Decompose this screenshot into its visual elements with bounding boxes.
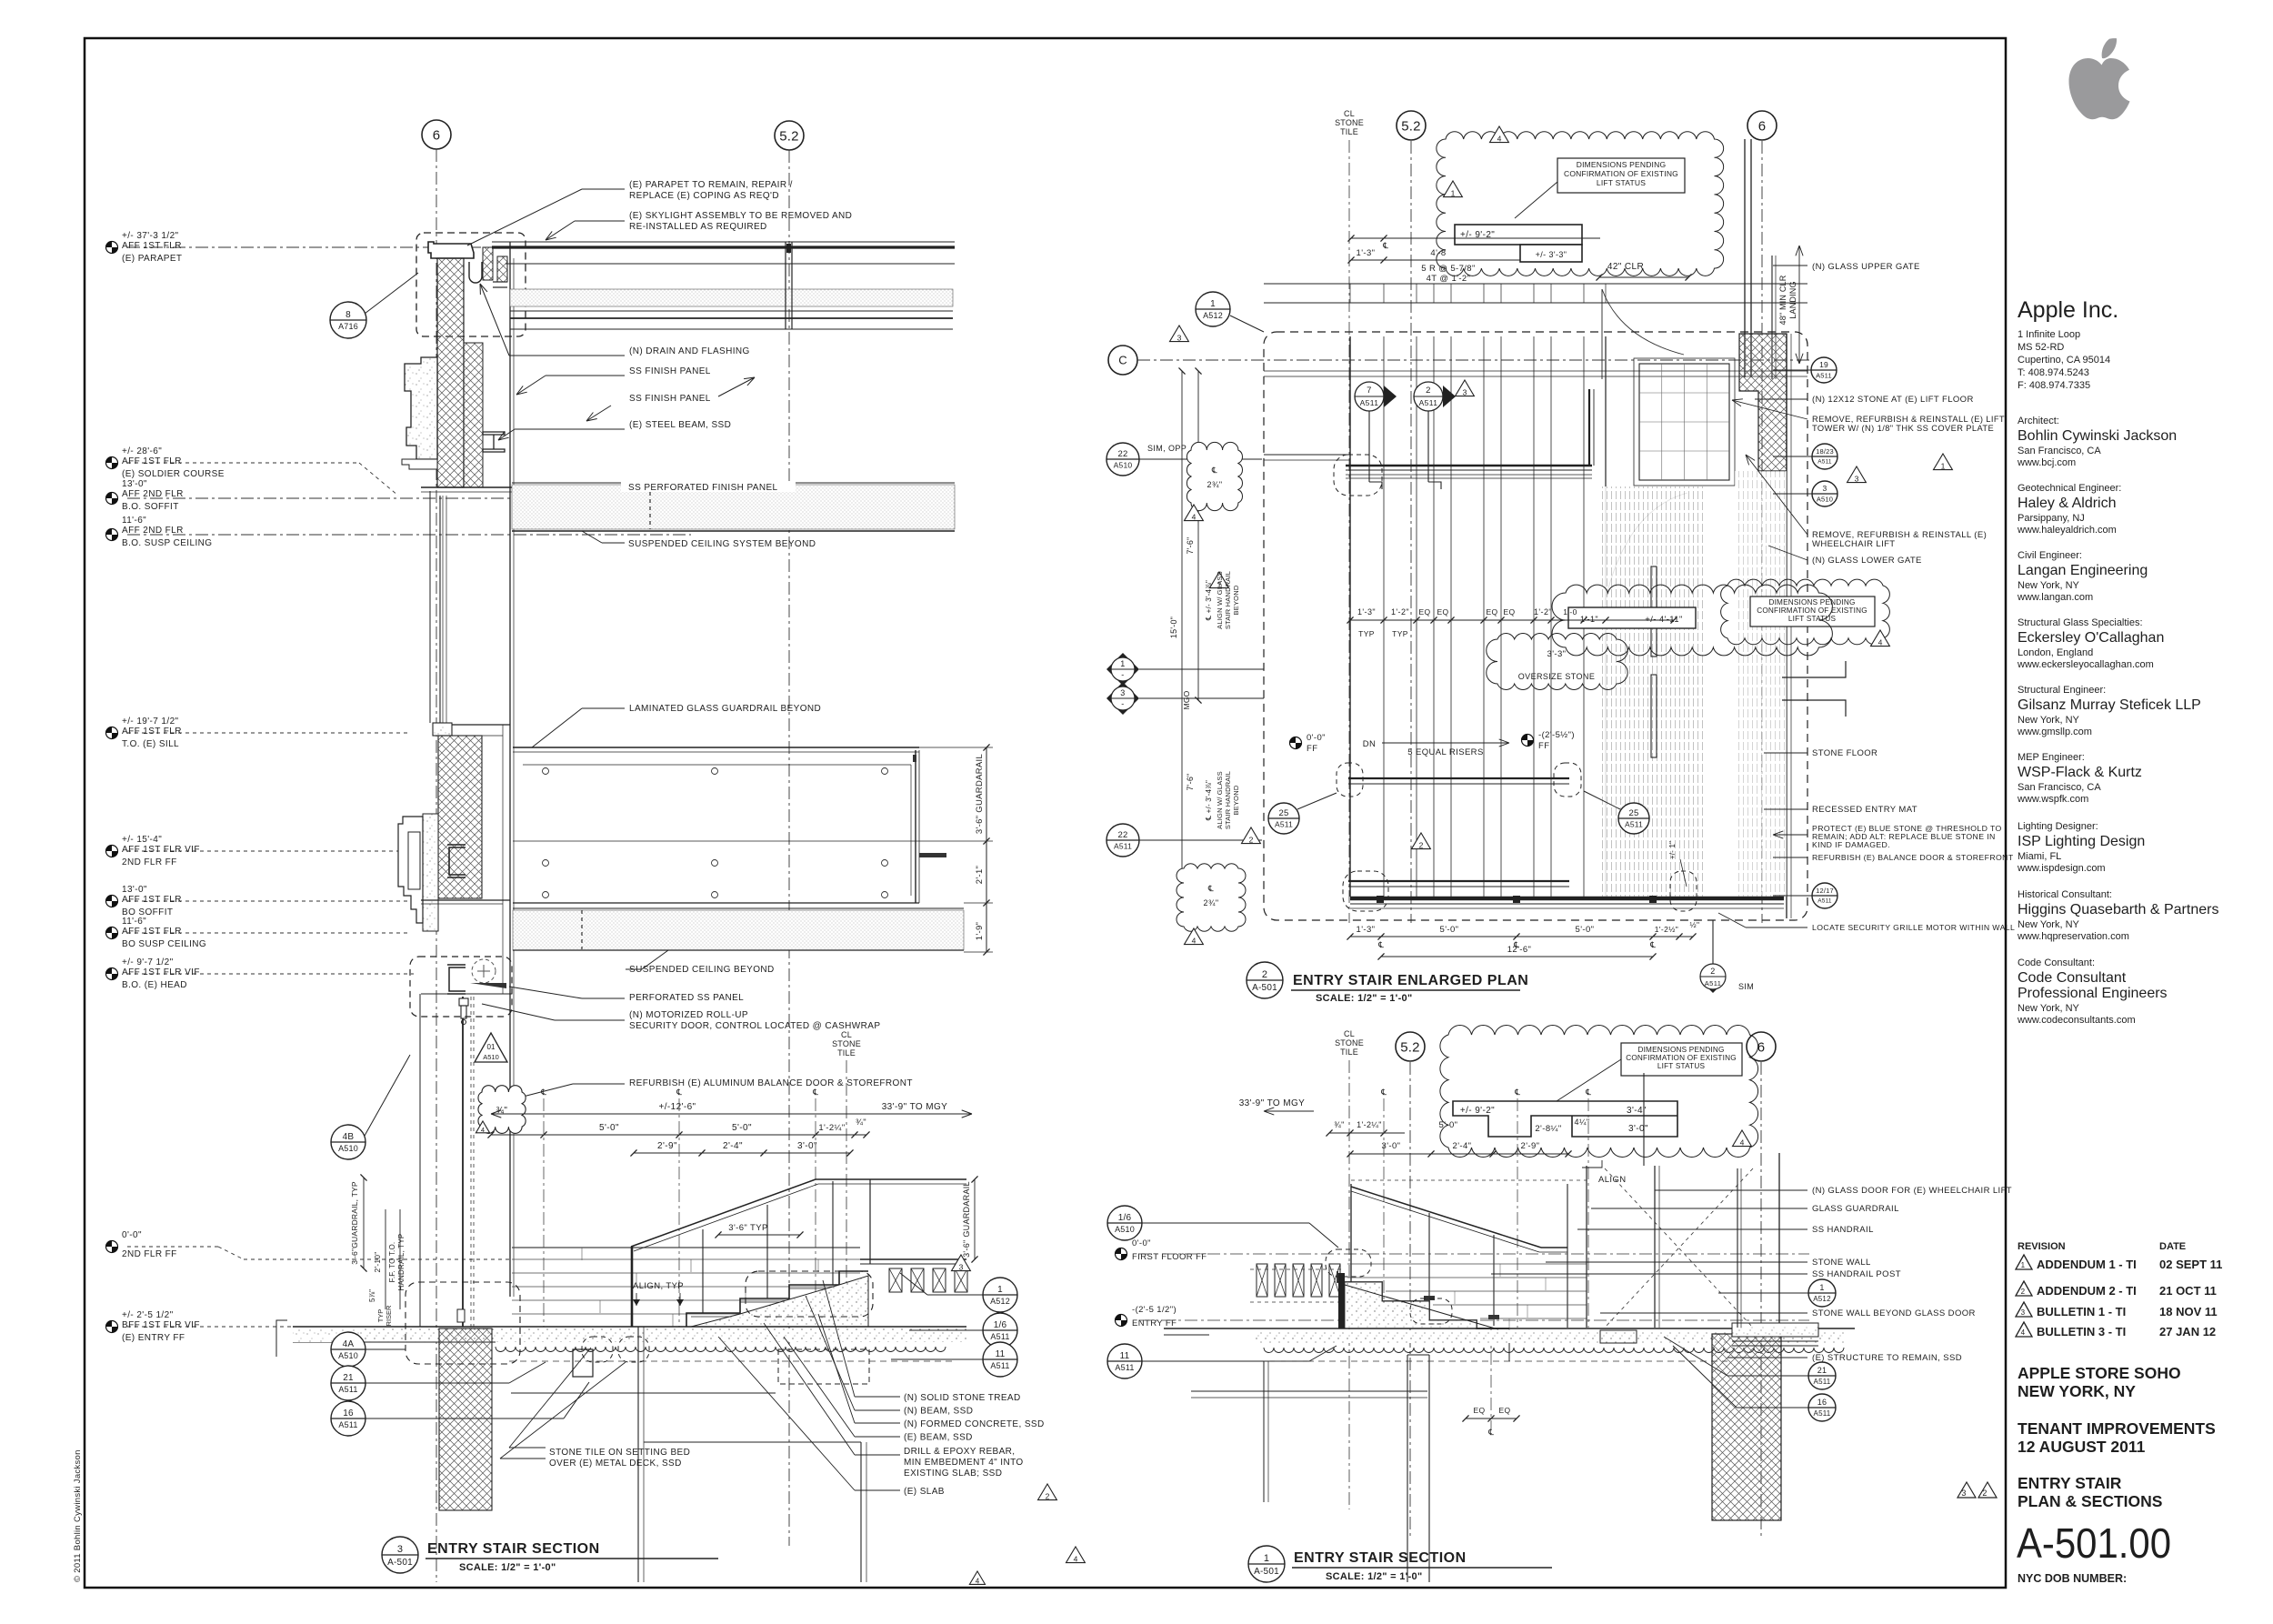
svg-text:A511: A511 bbox=[338, 1420, 357, 1429]
svg-text:Lighting Designer:: Lighting Designer: bbox=[2018, 821, 2098, 832]
svg-text:T: 408.974.5243: T: 408.974.5243 bbox=[2018, 367, 2089, 378]
svg-text:AFF 1ST FLR: AFF 1ST FLR bbox=[122, 241, 182, 251]
svg-text:STAIR HANDRAIL: STAIR HANDRAIL bbox=[1224, 571, 1232, 629]
svg-text:11'-6": 11'-6" bbox=[122, 917, 146, 927]
entry FF marker bbox=[1116, 1315, 1127, 1327]
title 3 entry stair section bbox=[382, 1537, 418, 1573]
roof insulation band bbox=[510, 289, 953, 306]
svg-text:New York, NY: New York, NY bbox=[2018, 1003, 2080, 1014]
roof deck lines bbox=[510, 310, 953, 312]
svg-text:Higgins Quasebarth & Partners: Higgins Quasebarth & Partners bbox=[2018, 902, 2218, 917]
svg-text:www.codeconsultants.com: www.codeconsultants.com bbox=[2017, 1015, 2136, 1026]
svg-text:25: 25 bbox=[1279, 808, 1289, 818]
svg-text:MEP Engineer:: MEP Engineer: bbox=[2018, 752, 2085, 763]
svg-text:APPLE STORE SOHO: APPLE STORE SOHO bbox=[2018, 1364, 2181, 1382]
svg-text:2: 2 bbox=[1046, 1492, 1050, 1501]
svg-text:SCALE: 1/2" = 1'-0": SCALE: 1/2" = 1'-0" bbox=[1326, 1571, 1422, 1582]
dashed plan boundary bbox=[1264, 332, 1807, 920]
svg-text:SS HANDRAIL: SS HANDRAIL bbox=[1812, 1225, 1874, 1235]
top dims (plan) bbox=[1351, 237, 1600, 239]
svg-text:(N) GLASS UPPER GATE: (N) GLASS UPPER GATE bbox=[1812, 262, 1920, 272]
svg-text:4B: 4B bbox=[343, 1132, 355, 1142]
svg-text:0'-0": 0'-0" bbox=[1132, 1238, 1151, 1248]
elevation marker B.O. SUSP CEILING 11-6 bbox=[106, 529, 118, 541]
svg-text:Geotechnical Engineer:: Geotechnical Engineer: bbox=[2018, 483, 2121, 494]
svg-text:A511: A511 bbox=[1814, 1409, 1831, 1418]
svg-text:SS HANDRAIL POST: SS HANDRAIL POST bbox=[1812, 1269, 1901, 1279]
svg-text:3'-6"GUARDRAIL, TYP: 3'-6"GUARDRAIL, TYP bbox=[350, 1181, 359, 1265]
left rotated dims (plan) bbox=[1181, 371, 1183, 897]
svg-text:2: 2 bbox=[1982, 1489, 1987, 1498]
svg-text:DIMENSIONS PENDING: DIMENSIONS PENDING bbox=[1637, 1046, 1724, 1054]
svg-text:EQ: EQ bbox=[1503, 607, 1515, 617]
svg-text:¾": ¾" bbox=[856, 1118, 866, 1128]
svg-text:22: 22 bbox=[1118, 449, 1128, 459]
svg-text:1/6: 1/6 bbox=[1118, 1213, 1132, 1223]
svg-text:BEYOND: BEYOND bbox=[1232, 585, 1240, 615]
upper plan wall lines bbox=[1264, 283, 1807, 285]
svg-text:(N) BEAM, SSD: (N) BEAM, SSD bbox=[904, 1407, 973, 1417]
svg-text:3: 3 bbox=[2021, 1308, 2026, 1317]
revision cloud top (plan) bbox=[1437, 132, 1724, 276]
rotated left dims at stair bbox=[363, 1178, 365, 1268]
svg-text:+/-12'-6": +/-12'-6" bbox=[658, 1102, 696, 1112]
svg-text:33'-9" TO MGY: 33'-9" TO MGY bbox=[1239, 1098, 1306, 1108]
wall end post (section 1) bbox=[1338, 1273, 1345, 1328]
svg-text:ENTRY STAIR: ENTRY STAIR bbox=[2018, 1474, 2122, 1492]
elevation marker BO SOFFIT 13-0 bbox=[106, 896, 118, 907]
svg-text:SS PERFORATED FINISH PANEL: SS PERFORATED FINISH PANEL bbox=[628, 483, 778, 493]
glass wall at landing edge (plan) bbox=[1346, 465, 1592, 467]
svg-text:www.langan.com: www.langan.com bbox=[2017, 592, 2093, 603]
svg-text:ADDENDUM 2 - TI: ADDENDUM 2 - TI bbox=[2037, 1284, 2137, 1298]
svg-text:A-501: A-501 bbox=[1254, 1567, 1279, 1577]
svg-text:0'-0": 0'-0" bbox=[122, 1230, 142, 1240]
basement column (section 1) bbox=[1407, 1355, 1408, 1582]
svg-text:1'-0: 1'-0 bbox=[1563, 607, 1577, 617]
upper floor landing right bbox=[869, 1179, 871, 1264]
svg-text:+/- 3'-3": +/- 3'-3" bbox=[1536, 250, 1567, 259]
svg-text:B.O. (E) HEAD: B.O. (E) HEAD bbox=[122, 980, 187, 990]
suspended ceiling beyond band bbox=[513, 907, 964, 909]
leader motorized roll-up bbox=[482, 1004, 555, 1020]
svg-text:℄: ℄ bbox=[1382, 241, 1388, 250]
svg-text:1: 1 bbox=[997, 1285, 1003, 1295]
svg-text:4: 4 bbox=[1192, 937, 1197, 946]
svg-text:11'-6": 11'-6" bbox=[122, 516, 146, 526]
svg-text:+/- 19'-7 1/2": +/- 19'-7 1/2" bbox=[122, 717, 179, 727]
svg-text:Gilsanz Murray Steficek LLP: Gilsanz Murray Steficek LLP bbox=[2018, 697, 2201, 713]
22/A510 callout bbox=[1106, 443, 1139, 476]
svg-text:11: 11 bbox=[996, 1349, 1006, 1359]
svg-text:Civil Engineer:: Civil Engineer: bbox=[2018, 550, 2082, 561]
svg-text:CONFIRMATION OF EXISTING: CONFIRMATION OF EXISTING bbox=[1757, 606, 1867, 615]
rev cloud 3/4 bbox=[478, 1086, 526, 1134]
skylight curb blocks bbox=[483, 247, 493, 280]
oversize stone cloud bbox=[1487, 634, 1627, 690]
stair steps bbox=[686, 1271, 868, 1327]
svg-text:3'-6" TYP: 3'-6" TYP bbox=[728, 1223, 767, 1233]
svg-text:3: 3 bbox=[1823, 484, 1827, 493]
svg-text:A-501: A-501 bbox=[1252, 983, 1277, 993]
svg-text:A510: A510 bbox=[338, 1351, 358, 1360]
svg-text:8: 8 bbox=[345, 310, 351, 320]
glass guardrail sloped (stair) bbox=[631, 1179, 816, 1247]
triangle rev 1 top right bbox=[1444, 181, 1463, 197]
handrail upper (plan) bbox=[1348, 777, 1569, 779]
svg-text:3'-6" GUARDARAIL: 3'-6" GUARDARAIL bbox=[975, 754, 985, 834]
guardrail handle bbox=[919, 853, 946, 857]
svg-text:DIMENSIONS PENDING: DIMENSIONS PENDING bbox=[1577, 160, 1667, 169]
svg-text:STONE: STONE bbox=[1335, 118, 1364, 127]
svg-text:SUSPENDED CEILING BEYOND: SUSPENDED CEILING BEYOND bbox=[629, 965, 775, 975]
elevation marker (E) ENTRY FF bbox=[106, 1321, 118, 1333]
33-9 TO MGY dim bbox=[1264, 1110, 1314, 1112]
dimensions pending box (plan top) bbox=[1557, 158, 1685, 193]
svg-text:2: 2 bbox=[1262, 969, 1267, 980]
svg-text:(E) STEEL BEAM, SSD: (E) STEEL BEAM, SSD bbox=[629, 420, 731, 430]
apple logo bbox=[2102, 38, 2117, 58]
svg-text:33'-9" TO MGY: 33'-9" TO MGY bbox=[882, 1102, 948, 1112]
svg-text:A510: A510 bbox=[1114, 461, 1133, 470]
elevation marker B.O. SOFFIT 13-0 bbox=[106, 493, 118, 505]
svg-text:Code Consultant:: Code Consultant: bbox=[2018, 957, 2095, 968]
svg-text:48" MIN CLR: 48" MIN CLR bbox=[1778, 275, 1787, 325]
dashed box roll-up door bbox=[410, 957, 512, 1017]
svg-text:C: C bbox=[1118, 354, 1127, 367]
svg-text:(N) MOTORIZED ROLL-UP: (N) MOTORIZED ROLL-UP bbox=[629, 1010, 748, 1020]
svg-text:1'-2¼": 1'-2¼" bbox=[818, 1123, 845, 1133]
svg-text:℄: ℄ bbox=[1585, 1088, 1591, 1097]
svg-text:AFF 2ND FLR: AFF 2ND FLR bbox=[122, 489, 184, 499]
concrete under stairs bbox=[691, 1276, 868, 1327]
svg-text:-: - bbox=[1121, 699, 1124, 708]
dim box 9-2/3-4/3-0 bbox=[1453, 1101, 1677, 1137]
svg-text:15'-0": 15'-0" bbox=[1169, 617, 1178, 638]
svg-text:22: 22 bbox=[1118, 830, 1128, 840]
svg-text:ISP Lighting Design: ISP Lighting Design bbox=[2018, 834, 2145, 849]
svg-text:18/23: 18/23 bbox=[1816, 447, 1834, 456]
svg-text:3: 3 bbox=[959, 1263, 964, 1272]
svg-text:A511: A511 bbox=[1705, 979, 1722, 987]
grid bubble 6 (plan) bbox=[1747, 111, 1777, 140]
svg-text:A511: A511 bbox=[338, 1385, 357, 1394]
svg-text:SIM: SIM bbox=[1738, 982, 1754, 991]
svg-text:A511: A511 bbox=[1419, 398, 1438, 407]
entry floor slab (section 1) bbox=[1164, 1328, 1855, 1329]
svg-text:5'-0": 5'-0" bbox=[732, 1123, 752, 1133]
top align line bbox=[1351, 1179, 1587, 1181]
svg-text:Langan Engineering: Langan Engineering bbox=[2018, 563, 2148, 578]
3-6 typ dim bbox=[718, 1234, 800, 1236]
right callouts bbox=[983, 1278, 1017, 1312]
detail box callout 8/A716 bbox=[330, 302, 366, 338]
svg-text:13'-0": 13'-0" bbox=[122, 479, 147, 489]
svg-text:1'-2¼": 1'-2¼" bbox=[1357, 1120, 1382, 1129]
svg-text:MS 52-RD: MS 52-RD bbox=[2018, 342, 2064, 353]
svg-text:1'-9": 1'-9" bbox=[975, 922, 985, 940]
beams below slab bbox=[509, 1360, 955, 1362]
svg-text:℄: ℄ bbox=[676, 1088, 682, 1097]
svg-text:5.2: 5.2 bbox=[1400, 1039, 1419, 1055]
svg-text:T.O. (E) SILL: T.O. (E) SILL bbox=[122, 739, 179, 749]
svg-text:GLASS GUARDRAIL: GLASS GUARDRAIL bbox=[1812, 1204, 1899, 1214]
svg-text:A511: A511 bbox=[1817, 459, 1832, 466]
svg-text:AFF 1ST FLR: AFF 1ST FLR bbox=[122, 895, 182, 905]
svg-text:LAMINATED GLASS GUARDRAIL BEYO: LAMINATED GLASS GUARDRAIL BEYOND bbox=[629, 704, 821, 714]
svg-text:KIND IF DAMAGED.: KIND IF DAMAGED. bbox=[1812, 840, 1890, 849]
svg-text:www.eckersleyocallaghan.com: www.eckersleyocallaghan.com bbox=[2017, 659, 2154, 670]
svg-text:OVER (E) METAL DECK, SSD: OVER (E) METAL DECK, SSD bbox=[549, 1459, 682, 1469]
svg-text:A-501: A-501 bbox=[387, 1558, 413, 1568]
mid wall crosshatch bbox=[438, 736, 482, 898]
svg-text:(N) 12X12 STONE AT (E) LIFT FL: (N) 12X12 STONE AT (E) LIFT FLOOR bbox=[1812, 395, 1974, 405]
svg-text:℄ +/- 3'-4⅞": ℄ +/- 3'-4⅞" bbox=[1205, 780, 1213, 821]
EQ EQ dims below bbox=[1466, 1418, 1517, 1419]
svg-text:+/- 2'-5 1/2": +/- 2'-5 1/2" bbox=[122, 1310, 174, 1320]
svg-text:F: 408.974.7335: F: 408.974.7335 bbox=[2018, 380, 2090, 391]
rev triangle 4 (bottom) bbox=[969, 1571, 985, 1584]
svg-text:LOCATE SECURITY GRILLE MOTOR W: LOCATE SECURITY GRILLE MOTOR WITHIN WALL bbox=[1812, 923, 2015, 932]
handrail lower (plan) bbox=[1348, 880, 1569, 882]
svg-text:3: 3 bbox=[1463, 388, 1467, 397]
svg-text:CONFIRMATION OF EXISTING: CONFIRMATION OF EXISTING bbox=[1564, 169, 1678, 178]
svg-text:01: 01 bbox=[487, 1043, 496, 1051]
svg-text:2'-4": 2'-4" bbox=[723, 1141, 743, 1151]
svg-text:CL: CL bbox=[1344, 109, 1355, 118]
recessed mat left bbox=[1164, 1334, 1209, 1336]
handrail posts (section 1) bbox=[1428, 1213, 1430, 1317]
svg-text:New York, NY: New York, NY bbox=[2018, 715, 2080, 726]
marker 2/A511 SIM bbox=[1700, 967, 1726, 993]
leader refurbish aluminum door bbox=[491, 1084, 573, 1105]
svg-text:San Francisco, CA: San Francisco, CA bbox=[2018, 446, 2101, 456]
svg-text:2: 2 bbox=[1426, 386, 1431, 396]
revision cloud (section 1) bbox=[1440, 1026, 1758, 1158]
svg-text:℄: ℄ bbox=[1487, 1428, 1494, 1437]
svg-text:℄: ℄ bbox=[1211, 466, 1217, 475]
svg-text:21: 21 bbox=[343, 1373, 354, 1383]
svg-text:TILE: TILE bbox=[1340, 1048, 1358, 1057]
grid bubble 5.2 (left section) bbox=[775, 121, 804, 150]
elevation marker T.O. (E) SILL bbox=[106, 727, 118, 739]
svg-text:4: 4 bbox=[1497, 135, 1502, 144]
svg-text:Parsippany, NJ: Parsippany, NJ bbox=[2018, 513, 2085, 524]
(E) parapet coping bbox=[428, 242, 474, 258]
svg-text:2: 2 bbox=[1249, 836, 1254, 845]
svg-text:CL: CL bbox=[1344, 1029, 1355, 1038]
grid line 6 (left section) bbox=[436, 149, 437, 1582]
svg-text:Architect:: Architect: bbox=[2018, 416, 2059, 426]
svg-text:EQ: EQ bbox=[1473, 1406, 1485, 1415]
svg-text:3'-3": 3'-3" bbox=[1547, 649, 1567, 659]
svg-text:Structural Engineer:: Structural Engineer: bbox=[2018, 685, 2106, 696]
svg-text:16: 16 bbox=[1817, 1398, 1827, 1407]
svg-text:A511: A511 bbox=[1275, 820, 1293, 829]
stone band wall (plan bottom) bbox=[1350, 897, 1784, 901]
svg-text:4: 4 bbox=[1740, 1138, 1745, 1148]
svg-text:Cupertino, CA 95014: Cupertino, CA 95014 bbox=[2018, 355, 2110, 366]
48 min clr dim line bbox=[1798, 246, 1800, 300]
svg-text:www.ispdesign.com: www.ispdesign.com bbox=[2017, 863, 2106, 874]
svg-text:4¼": 4¼" bbox=[1575, 1118, 1590, 1127]
svg-text:B.O. SOFFIT: B.O. SOFFIT bbox=[122, 502, 179, 512]
svg-text:Eckersley O'Callaghan: Eckersley O'Callaghan bbox=[2018, 630, 2164, 646]
triangle rev 2 pair bbox=[1242, 827, 1261, 844]
svg-text:Bohlin Cywinski Jackson: Bohlin Cywinski Jackson bbox=[2018, 428, 2177, 444]
svg-text:WSP-Flack & Kurtz: WSP-Flack & Kurtz bbox=[2018, 765, 2142, 780]
lift wall crosshatch (plan) bbox=[1739, 334, 1787, 471]
svg-text:ENTRY STAIR SECTION: ENTRY STAIR SECTION bbox=[1294, 1550, 1467, 1566]
svg-text:SS FINISH PANEL: SS FINISH PANEL bbox=[629, 394, 711, 404]
svg-text:A512: A512 bbox=[1813, 1295, 1831, 1303]
svg-text:3: 3 bbox=[1961, 1489, 1966, 1498]
glass upper gate arc bbox=[1602, 289, 1684, 355]
svg-text:+/- 37'-3 1/2": +/- 37'-3 1/2" bbox=[122, 231, 179, 241]
svg-text:5'-0": 5'-0" bbox=[1439, 1120, 1458, 1130]
svg-text:EQ: EQ bbox=[1498, 1406, 1510, 1415]
beams below (section 1) bbox=[1264, 1360, 1727, 1362]
lift shaft wall line (section 1) bbox=[1778, 1153, 1780, 1323]
skylight vertical mullion at grid 5.2 bbox=[785, 242, 786, 329]
svg-text:AFF 1ST FLR VIF: AFF 1ST FLR VIF bbox=[122, 845, 200, 855]
svg-text:RE-INSTALLED AS REQUIRED: RE-INSTALLED AS REQUIRED bbox=[629, 222, 767, 232]
(E) steel beam I section bbox=[483, 432, 505, 452]
svg-text:2: 2 bbox=[1419, 841, 1424, 850]
dashed line around joists bbox=[1250, 1268, 1344, 1270]
svg-text:AFF 1ST FLR: AFF 1ST FLR bbox=[122, 927, 182, 937]
svg-text:STAIR HANDRAIL: STAIR HANDRAIL bbox=[1224, 771, 1232, 829]
elevation marker 2ND FLR FF 0-0 bbox=[106, 1241, 118, 1253]
svg-text:5 EQUAL RISERS: 5 EQUAL RISERS bbox=[1407, 747, 1483, 757]
svg-text:1: 1 bbox=[1264, 1553, 1269, 1564]
wall face line bbox=[509, 242, 511, 1297]
svg-text:DN: DN bbox=[1363, 739, 1377, 749]
grid bubble 6 (left section) bbox=[422, 120, 451, 149]
svg-text:AFF 2ND FLR: AFF 2ND FLR bbox=[122, 526, 184, 536]
svg-text:2'-8¼": 2'-8¼" bbox=[1535, 1124, 1561, 1134]
svg-text:BO SUSP CEILING: BO SUSP CEILING bbox=[122, 939, 206, 949]
svg-text:½": ½" bbox=[1690, 920, 1700, 929]
glass lower gate arc bbox=[1606, 493, 1687, 598]
svg-text:6: 6 bbox=[433, 127, 441, 143]
rev triangle 3 (stair right) bbox=[952, 1255, 971, 1271]
svg-text:DATE: DATE bbox=[2159, 1241, 2186, 1252]
svg-text:REPLACE (E) COPING AS REQ'D: REPLACE (E) COPING AS REQ'D bbox=[629, 191, 779, 201]
svg-text:+/- 1": +/- 1" bbox=[1668, 841, 1677, 859]
svg-text:A511: A511 bbox=[990, 1361, 1009, 1370]
svg-text:1: 1 bbox=[2021, 1261, 2026, 1269]
triangle rev 1 left bbox=[1210, 572, 1229, 588]
svg-text:Professional Engineers: Professional Engineers bbox=[2018, 986, 2168, 1001]
svg-text:www.wspfk.com: www.wspfk.com bbox=[2017, 794, 2088, 805]
concrete under steps (section 1) bbox=[1345, 1282, 1477, 1328]
svg-text:SS FINISH PANEL: SS FINISH PANEL bbox=[629, 366, 711, 376]
svg-text:STONE TILE ON SETTING BED: STONE TILE ON SETTING BED bbox=[549, 1448, 690, 1458]
crosshatch wall right (section 1) bbox=[1712, 1334, 1781, 1520]
svg-text:3: 3 bbox=[1120, 688, 1125, 697]
DN and risers row bbox=[1290, 737, 1302, 749]
svg-text:www.haleyaldrich.com: www.haleyaldrich.com bbox=[2017, 525, 2117, 536]
svg-text:Historical Consultant:: Historical Consultant: bbox=[2018, 889, 2112, 900]
svg-text:1'-2": 1'-2" bbox=[1534, 607, 1552, 617]
grid bubble 6 (section 1) bbox=[1747, 1032, 1776, 1061]
plan right wall face bbox=[1786, 334, 1787, 918]
svg-text:42" CLR: 42" CLR bbox=[1607, 262, 1644, 272]
svg-text:1: 1 bbox=[1941, 462, 1946, 471]
svg-text:(E) SOLDIER COURSE: (E) SOLDIER COURSE bbox=[122, 469, 225, 479]
svg-text:2ND FLR FF: 2ND FLR FF bbox=[122, 1249, 177, 1259]
svg-text:(N) GLASS LOWER GATE: (N) GLASS LOWER GATE bbox=[1812, 556, 1922, 566]
callout 4B/A510 bbox=[331, 1125, 365, 1159]
svg-text:4: 4 bbox=[481, 1126, 485, 1134]
svg-text:Haley & Aldrich: Haley & Aldrich bbox=[2018, 496, 2117, 511]
svg-text:TILE: TILE bbox=[837, 1048, 856, 1058]
svg-text:A510: A510 bbox=[483, 1053, 499, 1061]
parapet masonry wall (crosshatch) bbox=[437, 258, 464, 487]
svg-text:FF: FF bbox=[1307, 744, 1317, 754]
door leaves bbox=[1651, 566, 1657, 657]
callout 11/A511 bbox=[1107, 1344, 1142, 1378]
inner wythe hatch bbox=[464, 343, 483, 487]
svg-text:4: 4 bbox=[1878, 638, 1883, 647]
svg-text:12/17: 12/17 bbox=[1816, 887, 1834, 895]
svg-text:1: 1 bbox=[1120, 659, 1125, 668]
svg-text:TOWER W/ (N) 1/8" THK SS COVER: TOWER W/ (N) 1/8" THK SS COVER PLATE bbox=[1812, 424, 1994, 433]
revision deltas near frame bbox=[1958, 1482, 1997, 1498]
svg-text:1'-3": 1'-3" bbox=[1357, 248, 1376, 258]
svg-text:12 AUGUST 2011: 12 AUGUST 2011 bbox=[2018, 1438, 2146, 1456]
svg-text:2'-9": 2'-9" bbox=[657, 1141, 677, 1151]
svg-text:2'-1": 2'-1" bbox=[975, 866, 985, 884]
svg-text:NYC DOB NUMBER:: NYC DOB NUMBER: bbox=[2018, 1572, 2127, 1585]
svg-text:ENTRY STAIR SECTION: ENTRY STAIR SECTION bbox=[427, 1541, 600, 1557]
svg-text:(N) FORMED CONCRETE, SSD: (N) FORMED CONCRETE, SSD bbox=[904, 1419, 1045, 1429]
under-stair wall lines bbox=[637, 1327, 639, 1582]
vertical dimension guardrail heights bbox=[986, 747, 987, 952]
svg-text:New York, NY: New York, NY bbox=[2018, 580, 2080, 591]
svg-text:5.2: 5.2 bbox=[1401, 118, 1420, 134]
svg-text:A511: A511 bbox=[1114, 842, 1132, 851]
svg-text:02 SEPT 11: 02 SEPT 11 bbox=[2159, 1258, 2222, 1271]
partial height wall stone coursing bbox=[512, 1247, 860, 1248]
svg-text:18 NOV 11: 18 NOV 11 bbox=[2159, 1305, 2218, 1318]
svg-text:ALIGN W/ GLASS: ALIGN W/ GLASS bbox=[1216, 571, 1224, 629]
svg-text:19: 19 bbox=[1819, 360, 1828, 369]
svg-text:TENANT IMPROVEMENTS: TENANT IMPROVEMENTS bbox=[2018, 1419, 2216, 1438]
svg-text:(E) PARAPET TO REMAIN, REPAIR: (E) PARAPET TO REMAIN, REPAIR / bbox=[629, 180, 793, 190]
triangle rev 4 top bbox=[1490, 126, 1509, 143]
door leaf below bbox=[419, 994, 421, 1327]
svg-text:PLAN & SECTIONS: PLAN & SECTIONS bbox=[2018, 1492, 2162, 1510]
svg-text:LIFT STATUS: LIFT STATUS bbox=[1597, 178, 1646, 187]
stone floor stipple region bbox=[1598, 486, 1703, 897]
svg-text:4T @ 1'-2": 4T @ 1'-2" bbox=[1427, 274, 1471, 284]
svg-text:3: 3 bbox=[397, 1544, 403, 1555]
tread dim row (plan) bbox=[1552, 585, 1832, 656]
svg-text:AFF 1ST FLR: AFF 1ST FLR bbox=[122, 727, 182, 737]
svg-text:DIMENSIONS PENDING: DIMENSIONS PENDING bbox=[1768, 598, 1855, 606]
svg-text:+/- 9'-7 1/2": +/- 9'-7 1/2" bbox=[122, 957, 174, 967]
svg-text:7'-6": 7'-6" bbox=[1186, 774, 1195, 791]
svg-text:A511: A511 bbox=[1115, 1363, 1134, 1372]
svg-text:27 JAN 12: 27 JAN 12 bbox=[2159, 1325, 2216, 1338]
svg-text:EQ: EQ bbox=[1486, 607, 1497, 617]
svg-text:A511: A511 bbox=[990, 1332, 1009, 1341]
svg-text:TYP: TYP bbox=[1392, 629, 1408, 638]
dim row 3 bbox=[634, 1152, 850, 1154]
title 1 entry stair section bbox=[1248, 1546, 1285, 1582]
